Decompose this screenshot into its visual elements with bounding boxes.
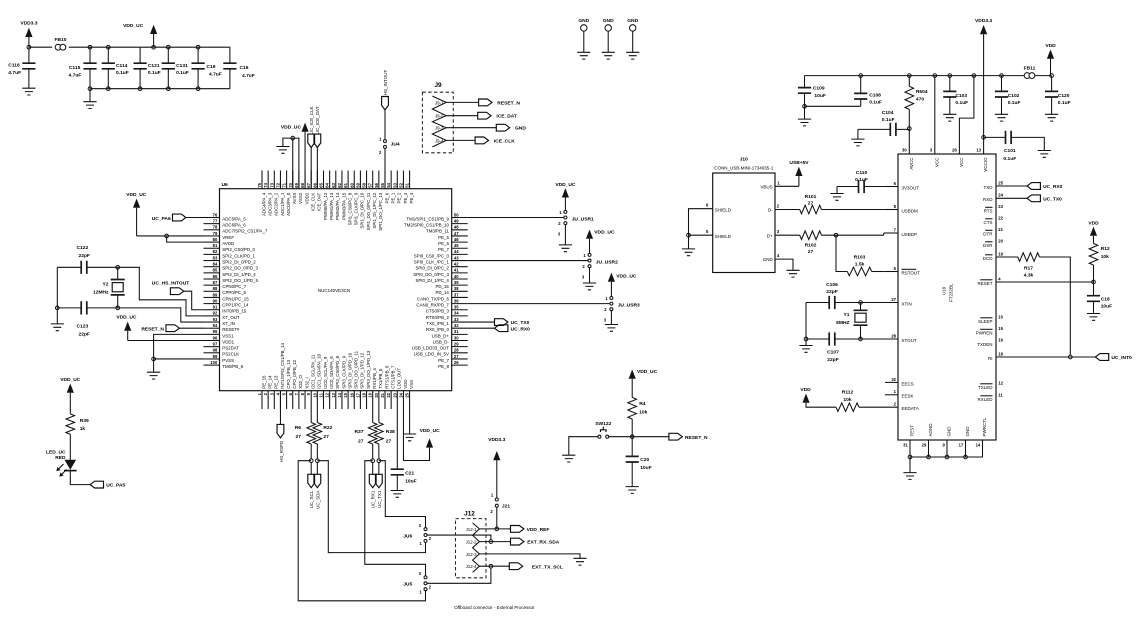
svg-text:9: 9 bbox=[942, 443, 945, 448]
svg-text:ADC4/PA_4: ADC4/PA_4 bbox=[261, 192, 266, 216]
svg-text:2: 2 bbox=[777, 204, 780, 209]
svg-text:PE_3: PE_3 bbox=[403, 192, 408, 203]
svg-text:ADC2/PA_2: ADC2/PA_2 bbox=[274, 192, 279, 216]
svg-text:SPI3_DO_1/PD_13: SPI3_DO_1/PD_13 bbox=[366, 350, 371, 389]
ground under C21 bbox=[391, 491, 404, 498]
svg-text:DCD: DCD bbox=[983, 256, 993, 261]
junction USBDP node bbox=[834, 233, 838, 237]
ground C101 bbox=[1038, 151, 1051, 158]
svg-text:ADC7/SPI2_CS1/PA_7: ADC7/SPI2_CS1/PA_7 bbox=[222, 229, 268, 234]
wire 3V3OUT stub bbox=[884, 186, 898, 188]
wire USBDP stub bbox=[884, 232, 898, 234]
svg-text:J12-4: J12-4 bbox=[466, 564, 478, 569]
wire bottom rail of cap bank bbox=[90, 88, 230, 90]
svg-text:VDD_UC: VDD_UC bbox=[123, 23, 144, 29]
ground under C116 bbox=[22, 88, 35, 95]
svg-text:79: 79 bbox=[213, 231, 218, 236]
svg-text:SPI2_DI_1/PD_4: SPI2_DI_1/PD_4 bbox=[222, 272, 256, 277]
tag UC_INT0 bbox=[1095, 354, 1108, 361]
svg-text:0.1uF: 0.1uF bbox=[1003, 156, 1016, 162]
svg-text:13: 13 bbox=[976, 147, 981, 152]
svg-text:RESET: RESET bbox=[977, 281, 992, 286]
svg-text:USB_D+: USB_D+ bbox=[432, 333, 450, 338]
svg-text:VREF: VREF bbox=[222, 235, 234, 240]
ground crystal Y1 bbox=[799, 346, 812, 353]
svg-text:31: 31 bbox=[454, 329, 459, 334]
svg-text:CPP0/PC_6: CPP0/PC_6 bbox=[222, 290, 246, 295]
capacitor C21 10uF on LDO_OUT bbox=[396, 409, 398, 469]
ground C110 bbox=[836, 187, 838, 194]
svg-text:PVSS: PVSS bbox=[222, 358, 234, 363]
svg-text:35: 35 bbox=[454, 305, 459, 310]
junction C101 tap bbox=[982, 136, 986, 140]
ground under C109 bbox=[804, 106, 806, 119]
svg-text:14: 14 bbox=[337, 392, 342, 397]
wire J12-4 to tag EXT_TX_SCL bbox=[479, 565, 509, 567]
svg-text:SPI3_DI_0/PD_10: SPI3_DI_0/PD_10 bbox=[347, 352, 352, 388]
svg-text:VCC: VCC bbox=[959, 157, 964, 167]
svg-text:UC_TX1: UC_TX1 bbox=[377, 490, 382, 508]
svg-text:PE_8: PE_8 bbox=[438, 364, 449, 369]
svg-text:I2C1_SDA/PA_10: I2C1_SDA/PA_10 bbox=[317, 353, 322, 388]
svg-text:FT232BL: FT232BL bbox=[949, 283, 954, 302]
svg-text:C107: C107 bbox=[827, 349, 839, 355]
USB UART U10 FT232BL body bbox=[898, 154, 996, 440]
svg-text:2: 2 bbox=[429, 584, 432, 589]
svg-text:J9-3: J9-3 bbox=[435, 126, 444, 131]
svg-text:PE_1: PE_1 bbox=[390, 192, 395, 203]
svg-text:27: 27 bbox=[358, 438, 364, 444]
svg-text:SPI0_CS0_/PC_0: SPI0_CS0_/PC_0 bbox=[414, 253, 450, 258]
svg-text:RED: RED bbox=[55, 455, 66, 461]
svg-text:UC_RX1: UC_RX1 bbox=[371, 490, 376, 508]
svg-text:ICE_CLK: ICE_CLK bbox=[494, 138, 515, 144]
svg-text:FB10: FB10 bbox=[55, 37, 67, 43]
svg-text:12: 12 bbox=[325, 392, 330, 397]
svg-text:30: 30 bbox=[902, 147, 907, 152]
svg-text:C18: C18 bbox=[1101, 296, 1110, 302]
svg-text:SPI2_CS0/PD_0: SPI2_CS0/PD_0 bbox=[222, 247, 255, 252]
wire RESET to pullup node bbox=[996, 281, 1094, 283]
svg-text:C121: C121 bbox=[148, 63, 160, 69]
svg-text:USB_D-: USB_D- bbox=[433, 339, 450, 344]
svg-text:R604: R604 bbox=[916, 89, 928, 95]
wire LED to tag UC_PA5 bbox=[70, 471, 90, 485]
svg-text:C19: C19 bbox=[207, 64, 216, 70]
svg-text:26: 26 bbox=[952, 147, 957, 152]
svg-text:AGND: AGND bbox=[928, 423, 933, 437]
wire top rail bbox=[69, 46, 230, 48]
svg-text:4: 4 bbox=[777, 253, 780, 258]
svg-text:UC_SCL: UC_SCL bbox=[309, 490, 314, 508]
svg-text:27: 27 bbox=[891, 297, 896, 302]
svg-text:CAN0_TX/PD_6: CAN0_TX/PD_6 bbox=[417, 296, 450, 301]
svg-text:C114: C114 bbox=[116, 63, 128, 69]
svg-text:25: 25 bbox=[998, 180, 1003, 185]
svg-text:19: 19 bbox=[998, 251, 1003, 256]
svg-text:0.1uF: 0.1uF bbox=[116, 70, 129, 76]
svg-text:RTS0/PB_2: RTS0/PB_2 bbox=[426, 315, 450, 320]
svg-text:40: 40 bbox=[454, 274, 459, 279]
wire crystal left rail bbox=[805, 303, 807, 346]
svg-text:C109: C109 bbox=[813, 85, 825, 91]
ground under C120 bbox=[1045, 114, 1058, 121]
svg-text:SPI3_DI_1/PD_12: SPI3_DI_1/PD_12 bbox=[360, 352, 365, 388]
svg-text:37: 37 bbox=[454, 292, 459, 297]
svg-text:R12: R12 bbox=[1101, 246, 1110, 252]
svg-text:66: 66 bbox=[312, 182, 317, 187]
svg-text:GND: GND bbox=[627, 18, 638, 24]
svg-text:4.7uF: 4.7uF bbox=[242, 73, 255, 79]
svg-text:EXT_TX_SCL: EXT_TX_SCL bbox=[532, 564, 563, 570]
svg-text:45: 45 bbox=[454, 243, 459, 248]
svg-text:0.1uF: 0.1uF bbox=[148, 70, 161, 76]
svg-text:6MHZ: 6MHZ bbox=[836, 320, 849, 326]
svg-text:CTS0/PB_3: CTS0/PB_3 bbox=[426, 309, 450, 314]
svg-text:21: 21 bbox=[380, 392, 385, 397]
svg-text:69: 69 bbox=[294, 182, 299, 187]
svg-text:92: 92 bbox=[213, 311, 218, 316]
svg-text:C21: C21 bbox=[405, 470, 414, 476]
svg-text:TXDEN: TXDEN bbox=[977, 342, 992, 347]
svg-text:USBDM: USBDM bbox=[902, 208, 919, 213]
svg-text:SPI2_DO_0/PD_3: SPI2_DO_0/PD_3 bbox=[222, 266, 258, 271]
svg-text:C116: C116 bbox=[8, 62, 20, 68]
svg-text:RESET_N: RESET_N bbox=[685, 435, 708, 441]
wire J9-3 to tag GND bbox=[446, 127, 496, 129]
svg-text:11: 11 bbox=[319, 392, 324, 397]
wire JU6 pin2 to J12-2 net bbox=[427, 535, 491, 540]
ground J10 GND bbox=[786, 270, 799, 277]
svg-text:22pF: 22pF bbox=[826, 289, 837, 295]
wire UC_RX1 to JU5 pin3 bbox=[365, 461, 426, 576]
svg-text:Y2: Y2 bbox=[103, 282, 109, 288]
svg-text:38: 38 bbox=[454, 286, 459, 291]
svg-text:I2C0_SCL/PA_9: I2C0_SCL/PA_9 bbox=[323, 356, 328, 388]
junction reset node bbox=[630, 435, 634, 439]
svg-text:22: 22 bbox=[998, 215, 1003, 220]
svg-text:82: 82 bbox=[213, 249, 218, 254]
svg-text:PE_4: PE_4 bbox=[409, 192, 414, 203]
wire pin 43 to JU_USR2 bbox=[468, 260, 588, 262]
svg-text:RTS: RTS bbox=[984, 208, 993, 213]
svg-text:3: 3 bbox=[419, 571, 422, 576]
svg-text:VDD_UC: VDD_UC bbox=[616, 273, 637, 279]
svg-text:ADC3/PA_3: ADC3/PA_3 bbox=[267, 192, 272, 216]
tag UC_TX1 bbox=[378, 462, 380, 474]
svg-text:96: 96 bbox=[213, 335, 218, 340]
junction gnd rail bbox=[908, 455, 912, 459]
svg-text:9: 9 bbox=[306, 392, 311, 395]
svg-text:U6: U6 bbox=[222, 182, 229, 188]
svg-text:PWRCTL: PWRCTL bbox=[982, 417, 987, 436]
svg-text:C120: C120 bbox=[1058, 93, 1070, 99]
svg-text:UC_ICE_DAT: UC_ICE_DAT bbox=[315, 106, 320, 134]
svg-text:1: 1 bbox=[419, 541, 422, 546]
svg-text:21: 21 bbox=[998, 227, 1003, 232]
svg-text:JU4: JU4 bbox=[391, 142, 400, 148]
svg-text:R102: R102 bbox=[805, 242, 817, 248]
svg-text:27: 27 bbox=[454, 354, 459, 359]
svg-text:62: 62 bbox=[337, 182, 342, 187]
svg-text:2: 2 bbox=[490, 509, 493, 514]
svg-text:X32_I: X32_I bbox=[304, 377, 309, 388]
svg-text:7: 7 bbox=[294, 392, 299, 395]
svg-text:17: 17 bbox=[355, 392, 360, 397]
svg-text:23: 23 bbox=[998, 204, 1003, 209]
svg-text:CPO_1/PB_13: CPO_1/PB_13 bbox=[286, 359, 291, 388]
svg-text:VDD_UC: VDD_UC bbox=[637, 369, 658, 375]
junction UC_TX1 node bbox=[377, 459, 381, 463]
svg-text:UC_ICE_CLK: UC_ICE_CLK bbox=[309, 106, 314, 134]
wire UC_SCL to JU5 pin1 bbox=[298, 461, 425, 601]
wire EECS stub bbox=[885, 381, 898, 383]
svg-text:1k: 1k bbox=[80, 426, 86, 432]
svg-text:70: 70 bbox=[288, 182, 293, 187]
svg-text:SPI1_DO_1/PC_13: SPI1_DO_1/PC_13 bbox=[378, 192, 383, 231]
svg-text:78: 78 bbox=[213, 225, 218, 230]
svg-text:EXT_RX_SDA: EXT_RX_SDA bbox=[527, 540, 560, 546]
svg-text:UC_HS_INTOUT: UC_HS_INTOUT bbox=[152, 281, 189, 287]
svg-text:76: 76 bbox=[213, 212, 218, 217]
svg-text:7: 7 bbox=[894, 227, 897, 232]
junction crystal top node bbox=[116, 265, 120, 269]
svg-text:XTOUT: XTOUT bbox=[902, 338, 917, 343]
svg-text:GND: GND bbox=[763, 257, 774, 262]
svg-text:R37: R37 bbox=[355, 429, 364, 435]
svg-text:JU6: JU6 bbox=[403, 533, 412, 539]
svg-text:4.7uF: 4.7uF bbox=[209, 72, 222, 78]
svg-text:VDD_UC: VDD_UC bbox=[281, 124, 302, 130]
wire PVSS pin 99 bbox=[154, 358, 204, 360]
svg-text:VCCIO: VCCIO bbox=[983, 157, 988, 172]
svg-text:47: 47 bbox=[454, 231, 459, 236]
svg-text:GND: GND bbox=[965, 426, 970, 437]
svg-text:6: 6 bbox=[706, 203, 709, 208]
svg-text:GND: GND bbox=[603, 18, 614, 24]
svg-text:CPO_0/PB_12: CPO_0/PB_12 bbox=[292, 359, 297, 388]
svg-text:RX0_/PB_0: RX0_/PB_0 bbox=[426, 327, 450, 332]
svg-text:22pF: 22pF bbox=[79, 332, 90, 338]
svg-text:84: 84 bbox=[213, 262, 218, 267]
svg-text:23: 23 bbox=[392, 392, 397, 397]
svg-text:99: 99 bbox=[213, 354, 218, 359]
svg-text:ADC6/PA_6: ADC6/PA_6 bbox=[222, 223, 246, 228]
svg-text:98: 98 bbox=[213, 348, 218, 353]
svg-text:86: 86 bbox=[213, 274, 218, 279]
svg-text:VDD: VDD bbox=[800, 387, 811, 393]
svg-text:JU_USR3: JU_USR3 bbox=[618, 302, 640, 308]
svg-text:JU5: JU5 bbox=[403, 582, 412, 588]
svg-text:RXD: RXD bbox=[983, 197, 993, 202]
svg-text:6: 6 bbox=[288, 392, 293, 395]
svg-text:22: 22 bbox=[386, 392, 391, 397]
junction XTOUT node bbox=[859, 337, 863, 341]
svg-text:36: 36 bbox=[454, 298, 459, 303]
svg-text:1: 1 bbox=[605, 296, 608, 301]
svg-text:31: 31 bbox=[903, 443, 908, 448]
svg-text:GND: GND bbox=[947, 426, 952, 437]
svg-text:J9-2: J9-2 bbox=[435, 114, 444, 119]
svg-text:1: 1 bbox=[379, 136, 382, 141]
svg-text:50: 50 bbox=[454, 212, 459, 217]
svg-text:J21: J21 bbox=[502, 504, 510, 510]
svg-text:4: 4 bbox=[275, 392, 280, 395]
svg-text:TX1/PB_5: TX1/PB_5 bbox=[378, 368, 383, 389]
svg-text:AVCC: AVCC bbox=[909, 157, 914, 170]
ground top of U6 bbox=[276, 147, 289, 154]
svg-text:UC_TX0: UC_TX0 bbox=[511, 320, 530, 326]
svg-text:0.1uF: 0.1uF bbox=[855, 177, 868, 183]
svg-text:10uF: 10uF bbox=[405, 479, 416, 485]
svg-text:SPI1_CS0/PC_8: SPI1_CS0/PC_8 bbox=[347, 192, 352, 225]
ground under C102 bbox=[995, 114, 1008, 121]
svg-text:VDD3.3: VDD3.3 bbox=[975, 18, 992, 24]
svg-text:PWM0/PA_12: PWM0/PA_12 bbox=[323, 192, 328, 220]
svg-text:18: 18 bbox=[998, 351, 1003, 356]
svg-text:0.1uF: 0.1uF bbox=[869, 100, 882, 106]
svg-text:UC_INT0: UC_INT0 bbox=[1111, 355, 1132, 361]
svg-text:32: 32 bbox=[891, 377, 896, 382]
svg-text:RTS1/PB_6: RTS1/PB_6 bbox=[384, 365, 389, 389]
svg-text:3: 3 bbox=[419, 523, 422, 528]
svg-text:R38: R38 bbox=[386, 429, 395, 435]
svg-text:C123: C123 bbox=[77, 324, 89, 330]
svg-text:5: 5 bbox=[282, 392, 287, 395]
wire XT_OUT to pin 92 bbox=[118, 267, 204, 316]
svg-text:UC_RX0: UC_RX0 bbox=[1043, 184, 1063, 190]
svg-text:VCC: VCC bbox=[934, 157, 939, 167]
svg-text:16: 16 bbox=[349, 392, 354, 397]
svg-text:VDD: VDD bbox=[1088, 220, 1099, 226]
svg-text:15: 15 bbox=[343, 392, 348, 397]
svg-text:55: 55 bbox=[380, 182, 385, 187]
svg-text:C103: C103 bbox=[955, 93, 967, 99]
junction AVCC node bbox=[907, 127, 911, 131]
junction XTIN node bbox=[859, 301, 863, 305]
svg-text:TM1/SPI1_CS1/PB_9: TM1/SPI1_CS1/PB_9 bbox=[406, 216, 449, 221]
tag UC_SDA bbox=[316, 462, 318, 474]
svg-text:XT_IN: XT_IN bbox=[222, 321, 234, 326]
svg-text:20: 20 bbox=[374, 392, 379, 397]
svg-text:24: 24 bbox=[398, 392, 403, 397]
svg-text:75: 75 bbox=[257, 182, 262, 187]
svg-text:68: 68 bbox=[300, 182, 305, 187]
svg-text:74: 74 bbox=[263, 182, 268, 187]
svg-text:JU_USR1: JU_USR1 bbox=[572, 216, 594, 222]
svg-text:J9-1: J9-1 bbox=[435, 100, 444, 105]
ground U6 VSS bbox=[153, 359, 155, 372]
svg-text:97: 97 bbox=[213, 341, 218, 346]
svg-text:INT1/SPI3_CS1/PB_14: INT1/SPI3_CS1/PB_14 bbox=[280, 343, 285, 389]
svg-text:10uF: 10uF bbox=[814, 93, 825, 99]
wire VSS1 pin 95 to ground bbox=[154, 334, 204, 359]
svg-text:1: 1 bbox=[778, 180, 781, 185]
svg-text:GND: GND bbox=[578, 18, 589, 24]
svg-text:57: 57 bbox=[368, 182, 373, 187]
svg-text:CPP1/PC_14: CPP1/PC_14 bbox=[222, 303, 249, 308]
ground C104 bbox=[857, 129, 859, 139]
svg-text:56: 56 bbox=[374, 182, 379, 187]
svg-text:INT0/PB_15: INT0/PB_15 bbox=[222, 309, 246, 314]
svg-text:VDD_UC: VDD_UC bbox=[60, 377, 81, 383]
svg-text:95: 95 bbox=[213, 329, 218, 334]
svg-text:USBDP: USBDP bbox=[902, 232, 918, 237]
tag UC_SCL bbox=[310, 462, 312, 474]
svg-text:1.5k: 1.5k bbox=[855, 261, 865, 267]
svg-text:PWM3/PA_15: PWM3/PA_15 bbox=[341, 192, 346, 220]
svg-text:67: 67 bbox=[306, 182, 311, 187]
wire J12-3 to ground bbox=[479, 554, 580, 558]
svg-text:PE_0: PE_0 bbox=[384, 192, 389, 203]
svg-text:72: 72 bbox=[275, 182, 280, 187]
svg-text:J12-1: J12-1 bbox=[466, 527, 478, 532]
wire JU4 to pin 55 bbox=[384, 148, 386, 188]
svg-text:VBUS: VBUS bbox=[760, 184, 772, 189]
svg-text:58: 58 bbox=[362, 182, 367, 187]
svg-text:SPI1_CLK/PC_9: SPI1_CLK/PC_9 bbox=[354, 192, 359, 225]
svg-text:VDD_UC: VDD_UC bbox=[594, 229, 615, 235]
svg-text:PE_15: PE_15 bbox=[261, 375, 266, 389]
svg-text:1: 1 bbox=[491, 493, 494, 498]
svg-text:90: 90 bbox=[213, 298, 218, 303]
svg-text:470: 470 bbox=[916, 97, 924, 103]
svg-text:1: 1 bbox=[583, 253, 586, 258]
svg-text:I2C0_SDA/PA_8: I2C0_SDA/PA_8 bbox=[329, 356, 334, 389]
svg-text:C131: C131 bbox=[176, 63, 188, 69]
svg-text:4: 4 bbox=[998, 276, 1001, 281]
svg-text:4.3k: 4.3k bbox=[1024, 273, 1034, 279]
svg-text:RESET_N: RESET_N bbox=[141, 327, 164, 333]
svg-text:3: 3 bbox=[269, 392, 274, 395]
wire J12-2 to tag EXT_RX_SDA bbox=[479, 541, 510, 543]
svg-text:FB11: FB11 bbox=[1024, 65, 1036, 71]
svg-text:TM0/PB_8: TM0/PB_8 bbox=[222, 364, 243, 369]
junction UC_RX1 node bbox=[371, 459, 375, 463]
svg-text:SPI0_DI_0/PC_2: SPI0_DI_0/PC_2 bbox=[415, 266, 449, 271]
svg-text:J9: J9 bbox=[434, 82, 442, 89]
svg-text:53: 53 bbox=[392, 182, 397, 187]
svg-text:VDD3.3: VDD3.3 bbox=[20, 21, 37, 27]
svg-text:PE_7: PE_7 bbox=[438, 358, 449, 363]
svg-text:TXLED: TXLED bbox=[978, 385, 993, 390]
svg-text:PD_14: PD_14 bbox=[435, 290, 449, 295]
svg-text:R101: R101 bbox=[805, 194, 817, 200]
svg-text:80: 80 bbox=[213, 237, 218, 242]
svg-text:PWREN: PWREN bbox=[976, 330, 993, 335]
svg-text:C108: C108 bbox=[869, 92, 881, 98]
tag UC_TX0 from pin 33 bbox=[468, 321, 495, 323]
svg-text:EEDATA: EEDATA bbox=[902, 406, 919, 411]
svg-text:16: 16 bbox=[998, 337, 1003, 342]
svg-text:30: 30 bbox=[454, 335, 459, 340]
svg-text:71: 71 bbox=[282, 182, 287, 187]
wire junction to AVDD pin 80 bbox=[167, 236, 204, 242]
svg-text:VDD_UC: VDD_UC bbox=[116, 315, 137, 321]
wire XT_IN to pin 93 bbox=[118, 308, 204, 322]
svg-text:0.1uF: 0.1uF bbox=[882, 117, 895, 123]
svg-text:27: 27 bbox=[323, 434, 329, 440]
wire AVCC pin 30 bbox=[908, 129, 910, 154]
svg-text:2: 2 bbox=[429, 536, 432, 541]
svg-text:SPI0_DO_0/PC_3: SPI0_DO_0/PC_3 bbox=[413, 272, 449, 277]
svg-text:GND: GND bbox=[515, 126, 526, 132]
wire USBDM stub bbox=[884, 209, 898, 211]
svg-text:26: 26 bbox=[454, 360, 459, 365]
svg-text:12: 12 bbox=[998, 380, 1003, 385]
svg-text:44: 44 bbox=[454, 249, 459, 254]
svg-text:88: 88 bbox=[213, 286, 218, 291]
